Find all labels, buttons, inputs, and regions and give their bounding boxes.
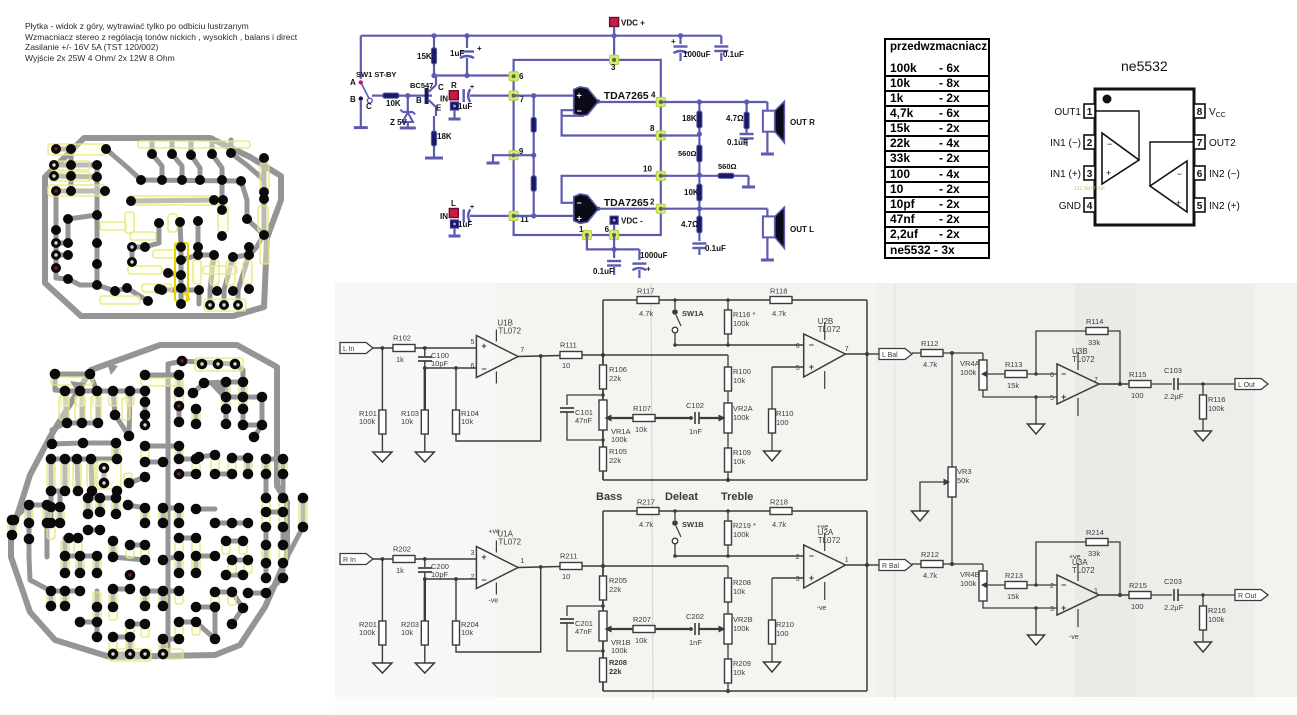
svg-text:R211: R211 — [560, 552, 577, 561]
svg-text:Z 5V: Z 5V — [390, 118, 408, 127]
svg-text:15K: 15K — [417, 52, 432, 61]
svg-text:VR2B: VR2B — [733, 615, 753, 624]
svg-text:10pF: 10pF — [431, 359, 449, 368]
svg-text:C: C — [366, 102, 372, 111]
svg-text:4.7k: 4.7k — [639, 520, 653, 529]
svg-text:4.7k: 4.7k — [923, 360, 937, 369]
svg-text:L Out: L Out — [1238, 382, 1255, 389]
svg-text:VR4B: VR4B — [960, 570, 980, 579]
svg-text:-ve: -ve — [488, 598, 498, 605]
svg-text:R202: R202 — [393, 545, 411, 554]
svg-text:8: 8 — [1197, 107, 1203, 118]
svg-text:R208: R208 — [609, 658, 627, 667]
svg-text:10: 10 — [562, 572, 570, 581]
svg-text:SW1B: SW1B — [682, 520, 704, 529]
svg-text:4.7Ω: 4.7Ω — [726, 114, 744, 123]
svg-text:R215: R215 — [1129, 581, 1147, 590]
svg-text:22k: 22k — [609, 456, 621, 465]
svg-text:7: 7 — [520, 347, 524, 354]
svg-text:22k: 22k — [609, 667, 622, 676]
svg-text:TL072: TL072 — [498, 327, 521, 336]
svg-text:3: 3 — [796, 576, 800, 583]
svg-text:10k: 10k — [733, 587, 745, 596]
svg-text:10K: 10K — [684, 188, 699, 197]
svg-text:+: + — [646, 265, 651, 274]
svg-text:VR4A: VR4A — [960, 359, 980, 368]
svg-text:50k: 50k — [957, 476, 969, 485]
svg-text:3: 3 — [470, 550, 474, 557]
svg-text:6: 6 — [1197, 169, 1203, 180]
svg-text:+: + — [577, 214, 582, 224]
svg-text:10pF: 10pF — [431, 570, 449, 579]
svg-text:4.7k: 4.7k — [639, 309, 653, 318]
svg-text:R216: R216 — [1208, 606, 1226, 615]
svg-text:+ve: +ve — [488, 529, 500, 536]
svg-text:C203: C203 — [1164, 577, 1182, 586]
svg-text:-ve: -ve — [817, 605, 827, 612]
svg-text:6: 6 — [470, 363, 474, 370]
svg-text:1uF: 1uF — [458, 220, 472, 229]
svg-text:1: 1 — [579, 225, 584, 234]
svg-text:TL072: TL072 — [818, 536, 841, 545]
svg-text:−: − — [1177, 169, 1182, 179]
svg-text:7: 7 — [1197, 138, 1203, 149]
svg-text:R109: R109 — [733, 448, 751, 457]
svg-text:1uF: 1uF — [458, 102, 472, 111]
svg-text:−: − — [577, 198, 582, 208]
svg-text:10k: 10k — [733, 376, 745, 385]
svg-text:R116: R116 — [1208, 395, 1225, 404]
svg-text:18K: 18K — [682, 114, 697, 123]
svg-text:−: − — [1061, 369, 1066, 379]
svg-text:4.7k: 4.7k — [772, 309, 786, 318]
svg-text:4.7k: 4.7k — [772, 520, 786, 529]
svg-text:R205: R205 — [609, 576, 627, 585]
svg-text:47nF: 47nF — [575, 627, 593, 636]
svg-text:3: 3 — [611, 63, 616, 72]
svg-text:B: B — [416, 96, 422, 105]
svg-text:VR3: VR3 — [957, 467, 972, 476]
svg-text:33k: 33k — [1088, 338, 1100, 347]
svg-text:R217: R217 — [637, 498, 655, 507]
svg-text:2: 2 — [650, 197, 655, 206]
svg-text:R Bal: R Bal — [882, 563, 900, 570]
svg-text:OUT R: OUT R — [790, 118, 815, 127]
svg-text:TL072: TL072 — [1072, 566, 1095, 575]
svg-text:560Ω: 560Ω — [678, 149, 697, 158]
svg-text:100: 100 — [776, 418, 789, 427]
svg-text:R209: R209 — [733, 659, 751, 668]
svg-text:6: 6 — [1050, 372, 1054, 379]
svg-text:R106: R106 — [609, 365, 627, 374]
svg-text:TDA7265: TDA7265 — [604, 90, 649, 102]
svg-text:R Out: R Out — [1238, 593, 1256, 600]
svg-text:R: R — [451, 81, 457, 90]
svg-text:+: + — [809, 573, 814, 583]
svg-text:560Ω: 560Ω — [718, 162, 737, 171]
svg-text:1: 1 — [1087, 107, 1093, 118]
svg-text:R105: R105 — [609, 447, 627, 456]
svg-text:C102: C102 — [686, 401, 704, 410]
svg-text:R218: R218 — [770, 498, 788, 507]
svg-text:100: 100 — [1131, 602, 1144, 611]
svg-text:+: + — [809, 362, 814, 372]
svg-text:R208: R208 — [733, 578, 751, 587]
svg-text:TL072: TL072 — [818, 325, 841, 334]
svg-text:−: − — [1061, 580, 1066, 590]
svg-text:1: 1 — [845, 557, 849, 564]
svg-text:-ve: -ve — [1069, 634, 1079, 641]
svg-text:1000uF: 1000uF — [683, 50, 711, 59]
svg-text:OUT1: OUT1 — [1054, 107, 1081, 118]
svg-text:TL072: TL072 — [1072, 355, 1095, 364]
svg-text:2.2µF: 2.2µF — [1164, 392, 1184, 401]
svg-text:IN1 (−): IN1 (−) — [1050, 138, 1081, 149]
svg-text:R112: R112 — [921, 339, 938, 348]
svg-text:2: 2 — [796, 554, 800, 561]
svg-text:1uF: 1uF — [450, 49, 464, 58]
svg-text:VDC +: VDC + — [621, 19, 645, 28]
svg-text:6: 6 — [519, 72, 524, 81]
svg-text:L: L — [451, 199, 456, 208]
svg-text:1k: 1k — [396, 355, 404, 364]
svg-text:2.2µF: 2.2µF — [1164, 603, 1184, 612]
svg-text:E: E — [436, 104, 442, 113]
svg-text:2: 2 — [1087, 138, 1093, 149]
svg-text:R219 *: R219 * — [733, 521, 756, 530]
svg-text:+: + — [470, 204, 474, 211]
svg-text:Dz terchnik: Dz terchnik — [1075, 186, 1106, 192]
svg-text:C: C — [438, 83, 444, 92]
svg-text:1k: 1k — [396, 566, 404, 575]
svg-text:1: 1 — [520, 558, 524, 565]
svg-text:5: 5 — [1197, 201, 1203, 212]
svg-text:10k: 10k — [401, 628, 413, 637]
svg-text:15k: 15k — [1007, 592, 1019, 601]
svg-text:ne5532: ne5532 — [1121, 58, 1168, 74]
svg-text:100k: 100k — [733, 624, 750, 633]
svg-text:IN1 (+): IN1 (+) — [1050, 169, 1081, 180]
svg-text:+: + — [1176, 198, 1181, 208]
svg-text:10k: 10k — [461, 417, 473, 426]
svg-text:4: 4 — [651, 91, 656, 100]
svg-text:Treble: Treble — [721, 491, 753, 503]
svg-text:Bass: Bass — [596, 491, 622, 503]
svg-text:10k: 10k — [401, 417, 413, 426]
svg-text:OUT2: OUT2 — [1209, 138, 1236, 149]
svg-text:0.1uF: 0.1uF — [723, 50, 744, 59]
svg-text:L In: L In — [343, 346, 355, 353]
svg-text:5: 5 — [470, 339, 474, 346]
svg-text:6: 6 — [796, 343, 800, 350]
svg-text:1nF: 1nF — [689, 427, 702, 436]
svg-text:B: B — [350, 95, 356, 104]
svg-text:−: − — [809, 551, 814, 561]
svg-text:4.7Ω: 4.7Ω — [681, 220, 699, 229]
svg-text:−: − — [481, 575, 486, 585]
svg-text:R210: R210 — [776, 620, 794, 629]
svg-text:100k: 100k — [611, 435, 628, 444]
svg-text:33k: 33k — [1088, 549, 1100, 558]
svg-text:IN2 (−): IN2 (−) — [1209, 169, 1240, 180]
svg-text:VCC: VCC — [1209, 107, 1226, 119]
svg-text:R117: R117 — [637, 287, 654, 296]
svg-text:A: A — [350, 78, 356, 87]
svg-text:100k: 100k — [359, 417, 376, 426]
svg-text:R116 *: R116 * — [733, 310, 755, 319]
svg-text:100k: 100k — [960, 368, 977, 377]
svg-text:100k: 100k — [1208, 615, 1225, 624]
svg-text:R207: R207 — [633, 615, 651, 624]
svg-text:100k: 100k — [733, 413, 750, 422]
svg-text:Deleat: Deleat — [665, 491, 698, 503]
svg-text:SW1A: SW1A — [682, 309, 704, 318]
svg-text:L Bal: L Bal — [882, 352, 898, 359]
svg-text:R In: R In — [343, 557, 356, 564]
svg-text:10k: 10k — [733, 668, 745, 677]
svg-text:C202: C202 — [686, 612, 704, 621]
svg-text:R110: R110 — [776, 409, 793, 418]
svg-text:R115: R115 — [1129, 370, 1146, 379]
svg-text:0.1uF: 0.1uF — [705, 244, 726, 253]
svg-text:R100: R100 — [733, 367, 751, 376]
svg-text:−: − — [1107, 139, 1112, 149]
svg-text:+: + — [577, 91, 582, 101]
svg-text:+ve: +ve — [817, 524, 829, 531]
svg-text:+: + — [477, 44, 482, 53]
svg-text:−: − — [809, 340, 814, 350]
svg-text:100k: 100k — [359, 628, 376, 637]
svg-text:5: 5 — [1050, 395, 1054, 402]
svg-text:1000uF: 1000uF — [640, 251, 668, 260]
svg-text:−: − — [481, 364, 486, 374]
svg-text:22k: 22k — [609, 585, 621, 594]
svg-text:4: 4 — [1087, 201, 1093, 212]
svg-text:TL072: TL072 — [498, 538, 521, 547]
svg-text:VR2A: VR2A — [733, 404, 753, 413]
svg-text:R102: R102 — [393, 334, 411, 343]
svg-text:3: 3 — [1050, 606, 1054, 613]
svg-text:IN: IN — [440, 212, 448, 221]
svg-text:R213: R213 — [1005, 571, 1023, 580]
svg-text:VDC -: VDC - — [621, 217, 643, 226]
svg-text:15k: 15k — [1007, 381, 1019, 390]
svg-text:6: 6 — [605, 225, 610, 234]
svg-text:R118: R118 — [770, 287, 787, 296]
svg-text:1nF: 1nF — [689, 638, 702, 647]
svg-text:+: + — [470, 84, 474, 91]
svg-text:7: 7 — [1094, 377, 1098, 384]
svg-text:10k: 10k — [733, 457, 745, 466]
svg-text:C103: C103 — [1164, 366, 1182, 375]
svg-text:+: + — [1106, 168, 1111, 178]
svg-text:SW1 ST-BY: SW1 ST-BY — [356, 70, 396, 79]
svg-text:100k: 100k — [733, 319, 750, 328]
svg-text:+: + — [481, 341, 486, 351]
svg-text:0.1uF: 0.1uF — [593, 267, 614, 276]
svg-text:22k: 22k — [609, 374, 621, 383]
svg-text:−: − — [577, 106, 582, 116]
svg-text:R212: R212 — [921, 550, 939, 559]
svg-text:10k: 10k — [461, 628, 473, 637]
svg-text:4.7k: 4.7k — [923, 571, 937, 580]
svg-text:IN: IN — [440, 94, 448, 103]
svg-text:+: + — [481, 552, 486, 562]
svg-text:0.1uF: 0.1uF — [727, 138, 748, 147]
svg-text:OUT L: OUT L — [790, 225, 814, 234]
svg-text:7: 7 — [845, 346, 849, 353]
svg-text:TDA7265: TDA7265 — [604, 197, 649, 209]
svg-text:47nF: 47nF — [575, 416, 593, 425]
svg-text:+: + — [1061, 603, 1066, 613]
svg-text:R111: R111 — [560, 341, 577, 350]
svg-text:GND: GND — [1059, 201, 1081, 212]
svg-text:100k: 100k — [960, 579, 977, 588]
svg-text:R107: R107 — [633, 404, 651, 413]
svg-text:100k: 100k — [611, 646, 628, 655]
svg-text:BC547: BC547 — [410, 81, 433, 90]
svg-text:10: 10 — [643, 165, 652, 174]
svg-text:100: 100 — [776, 629, 789, 638]
svg-text:100k: 100k — [1208, 404, 1225, 413]
svg-text:2: 2 — [470, 574, 474, 581]
svg-text:3: 3 — [1087, 169, 1093, 180]
svg-text:100: 100 — [1131, 391, 1144, 400]
svg-text:+: + — [671, 37, 676, 46]
svg-text:5: 5 — [796, 365, 800, 372]
svg-text:1: 1 — [1094, 588, 1098, 595]
svg-text:18K: 18K — [437, 132, 452, 141]
svg-text:100k: 100k — [733, 530, 750, 539]
svg-text:2: 2 — [1050, 583, 1054, 590]
svg-text:10k: 10k — [635, 636, 647, 645]
svg-text:R214: R214 — [1086, 528, 1104, 537]
svg-text:8: 8 — [650, 124, 655, 133]
svg-text:+ve: +ve — [1069, 554, 1081, 561]
svg-text:+: + — [1061, 392, 1066, 402]
svg-text:IN2 (+): IN2 (+) — [1209, 201, 1240, 212]
svg-text:R114: R114 — [1086, 317, 1103, 326]
svg-text:10: 10 — [562, 361, 570, 370]
svg-text:R113: R113 — [1005, 360, 1022, 369]
svg-text:10K: 10K — [386, 99, 401, 108]
svg-text:10k: 10k — [635, 425, 647, 434]
